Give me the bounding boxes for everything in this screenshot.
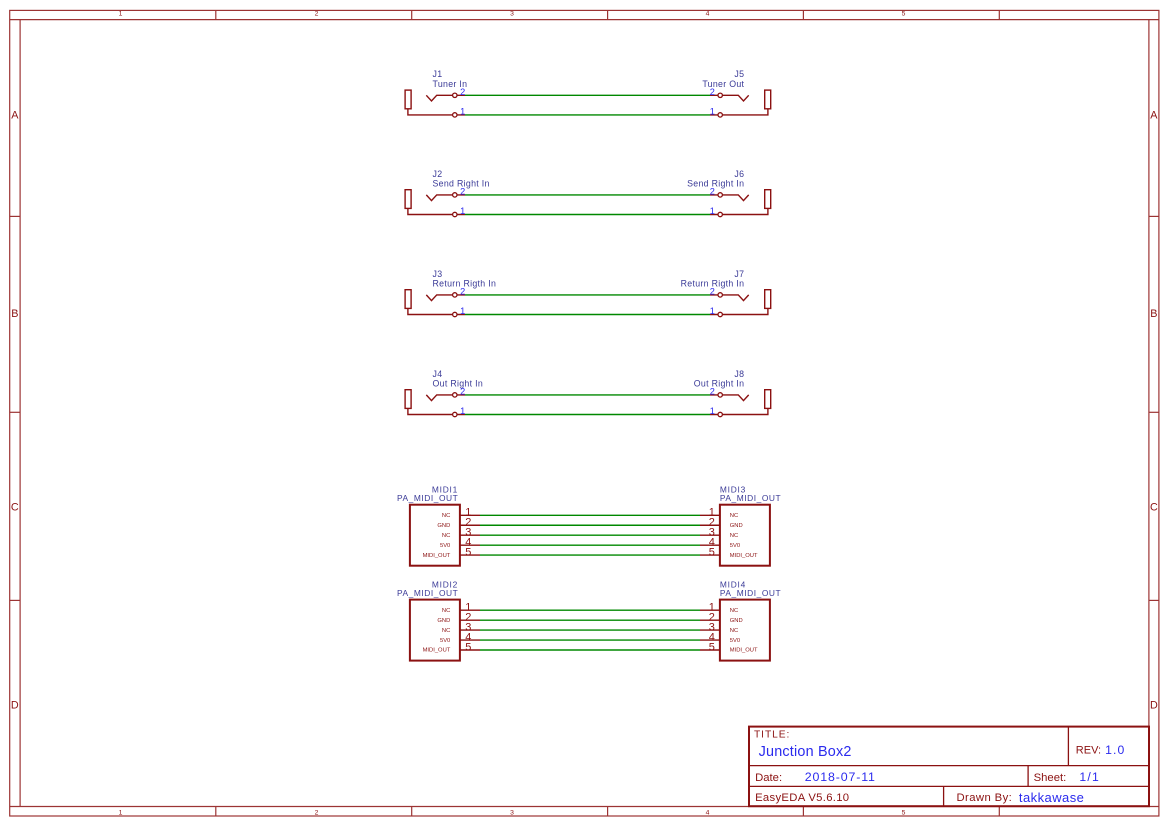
svg-text:GND: GND xyxy=(730,618,743,624)
svg-text:MIDI_OUT: MIDI_OUT xyxy=(423,553,451,559)
wire MIDI2.1 to MIDI4.1 xyxy=(480,609,700,611)
connector J2 (Send Right In) phone jack symbol xyxy=(405,190,465,217)
svg-text:5: 5 xyxy=(902,809,906,816)
svg-text:NC: NC xyxy=(730,628,738,634)
svg-text:3: 3 xyxy=(510,11,514,18)
svg-text:J2: J2 xyxy=(433,169,443,179)
svg-text:Junction Box2: Junction Box2 xyxy=(759,744,852,760)
svg-text:Sheet:: Sheet: xyxy=(1034,772,1067,784)
wire MIDI1.4 to MIDI3.4 xyxy=(480,544,700,546)
svg-text:2: 2 xyxy=(710,87,715,97)
svg-text:1: 1 xyxy=(710,406,715,416)
svg-text:J8: J8 xyxy=(734,369,744,379)
svg-text:1: 1 xyxy=(460,206,465,216)
svg-text:Tuner Out: Tuner Out xyxy=(702,79,744,89)
svg-text:GND: GND xyxy=(730,523,743,529)
wire MIDI2.2 to MIDI4.2 xyxy=(480,619,700,621)
wire J3.2 to J7.2 xyxy=(465,294,710,296)
svg-text:2: 2 xyxy=(710,387,715,397)
svg-text:J3: J3 xyxy=(433,269,443,279)
wire MIDI1.1 to MIDI3.1 xyxy=(480,514,700,516)
svg-text:A: A xyxy=(1150,110,1158,122)
svg-text:2018-07-11: 2018-07-11 xyxy=(805,770,876,784)
svg-text:2: 2 xyxy=(460,287,465,297)
svg-text:1.0: 1.0 xyxy=(1105,743,1125,757)
wire J2.1 to J6.1 xyxy=(465,214,710,216)
connector MIDI3 PA_MIDI_OUT DIN socket xyxy=(700,505,770,566)
svg-text:Out Right In: Out Right In xyxy=(694,379,745,389)
svg-text:5V0: 5V0 xyxy=(440,543,450,549)
svg-text:PA_MIDI_OUT: PA_MIDI_OUT xyxy=(397,588,458,598)
svg-text:C: C xyxy=(11,502,19,514)
svg-text:5: 5 xyxy=(465,547,471,559)
svg-text:NC: NC xyxy=(442,608,450,614)
svg-text:J5: J5 xyxy=(734,69,744,79)
svg-text:2: 2 xyxy=(315,11,319,18)
svg-text:5V0: 5V0 xyxy=(440,638,450,644)
wire MIDI1.3 to MIDI3.3 xyxy=(480,534,700,536)
svg-text:MIDI_OUT: MIDI_OUT xyxy=(730,553,758,559)
svg-text:5V0: 5V0 xyxy=(730,638,740,644)
svg-text:1: 1 xyxy=(460,406,465,416)
svg-text:1: 1 xyxy=(460,107,465,117)
wire J2.2 to J6.2 xyxy=(465,194,710,196)
svg-text:3: 3 xyxy=(510,809,514,816)
svg-text:J6: J6 xyxy=(734,169,744,179)
svg-text:Send Right In: Send Right In xyxy=(687,179,744,189)
wire J1.2 to J5.2 xyxy=(465,94,710,96)
wire J1.1 to J5.1 xyxy=(465,114,710,116)
svg-text:J1: J1 xyxy=(433,69,443,79)
wire MIDI2.5 to MIDI4.5 xyxy=(480,649,700,651)
svg-text:NC: NC xyxy=(442,628,450,634)
svg-text:NC: NC xyxy=(730,513,738,519)
svg-text:1: 1 xyxy=(710,107,715,117)
svg-text:D: D xyxy=(1150,700,1158,712)
svg-text:5: 5 xyxy=(709,641,715,653)
svg-text:1: 1 xyxy=(119,11,123,18)
svg-text:4: 4 xyxy=(706,809,710,816)
svg-text:PA_MIDI_OUT: PA_MIDI_OUT xyxy=(397,493,458,503)
svg-text:MIDI_OUT: MIDI_OUT xyxy=(423,648,451,654)
svg-text:5: 5 xyxy=(709,547,715,559)
svg-text:GND: GND xyxy=(437,523,450,529)
svg-text:NC: NC xyxy=(730,608,738,614)
connector J5 (Tuner Out) phone jack symbol xyxy=(710,90,771,117)
connector MIDI1 PA_MIDI_OUT DIN socket xyxy=(410,505,480,566)
connector J4 (Out Right In) phone jack symbol xyxy=(405,390,465,417)
svg-text:PA_MIDI_OUT: PA_MIDI_OUT xyxy=(720,493,781,503)
svg-text:1/1: 1/1 xyxy=(1079,770,1100,784)
connector J7 (Return Rigth In) phone jack symbol xyxy=(710,290,771,317)
svg-text:2: 2 xyxy=(460,87,465,97)
svg-text:5V0: 5V0 xyxy=(730,543,740,549)
svg-text:2: 2 xyxy=(710,287,715,297)
svg-text:MIDI_OUT: MIDI_OUT xyxy=(730,648,758,654)
svg-text:4: 4 xyxy=(706,11,710,18)
wire J4.1 to J8.1 xyxy=(465,414,710,416)
wire MIDI2.4 to MIDI4.4 xyxy=(480,639,700,641)
wire MIDI1.5 to MIDI3.5 xyxy=(480,554,700,556)
svg-text:5: 5 xyxy=(902,11,906,18)
connector J3 (Return Rigth In) phone jack symbol xyxy=(405,290,465,317)
wire MIDI2.3 to MIDI4.3 xyxy=(480,629,700,631)
svg-text:2: 2 xyxy=(710,187,715,197)
svg-text:5: 5 xyxy=(465,641,471,653)
svg-text:NC: NC xyxy=(730,533,738,539)
svg-text:NC: NC xyxy=(442,533,450,539)
svg-text:EasyEDA V5.6.10: EasyEDA V5.6.10 xyxy=(755,792,849,804)
svg-text:J7: J7 xyxy=(734,269,744,279)
svg-text:C: C xyxy=(1150,502,1158,514)
svg-text:GND: GND xyxy=(437,618,450,624)
svg-text:J4: J4 xyxy=(433,369,443,379)
connector MIDI2 PA_MIDI_OUT DIN socket xyxy=(410,600,480,661)
svg-text:1: 1 xyxy=(710,206,715,216)
svg-text:1: 1 xyxy=(119,809,123,816)
svg-text:2: 2 xyxy=(460,387,465,397)
svg-text:B: B xyxy=(11,308,18,320)
svg-text:REV:: REV: xyxy=(1076,745,1101,757)
svg-text:1: 1 xyxy=(710,306,715,316)
connector J8 (Out Right In) phone jack symbol xyxy=(710,390,771,417)
svg-text:Date:: Date: xyxy=(755,772,782,784)
svg-text:2: 2 xyxy=(460,187,465,197)
svg-text:PA_MIDI_OUT: PA_MIDI_OUT xyxy=(720,588,781,598)
svg-text:NC: NC xyxy=(442,513,450,519)
svg-text:TITLE:: TITLE: xyxy=(754,730,790,741)
wire J4.2 to J8.2 xyxy=(465,394,710,396)
svg-text:takkawase: takkawase xyxy=(1019,790,1084,805)
title block outline xyxy=(749,727,1149,807)
svg-text:Out Right In: Out Right In xyxy=(433,379,484,389)
svg-text:Drawn By:: Drawn By: xyxy=(957,792,1013,804)
connector J1 (Tuner In) phone jack symbol xyxy=(405,90,465,117)
connector MIDI4 PA_MIDI_OUT DIN socket xyxy=(700,600,770,661)
svg-text:2: 2 xyxy=(315,809,319,816)
svg-text:A: A xyxy=(11,110,19,122)
svg-text:D: D xyxy=(11,700,19,712)
connector J6 (Send Right In) phone jack symbol xyxy=(710,190,771,217)
svg-text:B: B xyxy=(1150,308,1157,320)
wire J3.1 to J7.1 xyxy=(465,314,710,316)
svg-text:1: 1 xyxy=(460,306,465,316)
wire MIDI1.2 to MIDI3.2 xyxy=(480,524,700,526)
